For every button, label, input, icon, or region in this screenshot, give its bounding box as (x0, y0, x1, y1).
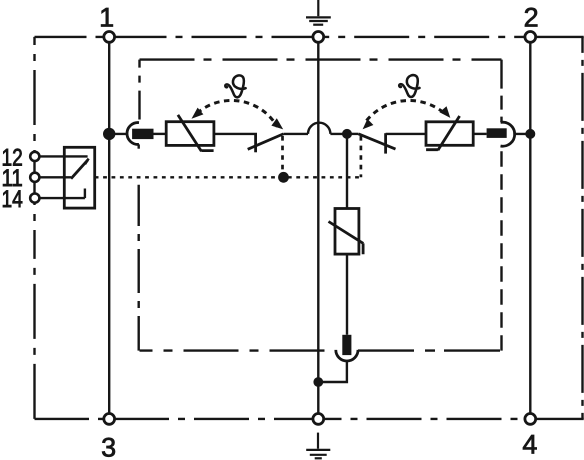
thermal trip arc F1 (dashed with arrows) (197, 100, 277, 126)
thermal trip arc F1 left arrowhead (192, 108, 204, 119)
inner module enclosure bottom edge (dash-dot, interrupted by socket) (140, 349, 336, 351)
wire: node N1 to thermal disconnect F2 (347, 133, 359, 135)
plug-in connector socket (right, on enclosure edge) (501, 122, 515, 146)
plug-in connector socket (bottom, on enclosure edge) (336, 350, 358, 361)
svg-text:2: 2 (524, 2, 539, 32)
plug-in connector plug (right, black contact pin) (487, 128, 507, 138)
varistor RV3 body (335, 209, 359, 255)
earth terminal circle (top) (313, 32, 324, 43)
outer frame right edge (dash-dot) (581, 37, 583, 419)
earth symbol (bottom) (306, 433, 330, 459)
wire: varistor RV3 down to bottom plug (346, 254, 348, 335)
crossover bump over centre bus (no connection) (308, 123, 330, 134)
terminal 4 circle (525, 414, 536, 425)
wire: terminal 11 lead (40, 176, 72, 178)
thermal disconnect F1 fixed bar (254, 133, 257, 152)
terminal 12 circle (30, 152, 39, 161)
varistor RV1 diagonal stroke (178, 115, 214, 151)
wire: bottom socket to node on centre bus (318, 361, 347, 382)
wire: node N1 down to centre varistor RV3 (346, 134, 348, 209)
node: junction dot at right bus (525, 129, 535, 139)
thermal trip arc F2 left arrowhead (363, 119, 374, 129)
wire: right bus from terminal 2 to terminal 4 (529, 42, 531, 413)
wire: varistor RV1 to thermal disconnect F1 (214, 133, 257, 135)
wire: left bus from terminal 1 to terminal 3 (108, 42, 110, 413)
wire: crossover to node N1 (330, 133, 347, 135)
outer frame left edge (dash-dot) (33, 37, 35, 230)
wire: terminal 12 lead (40, 155, 88, 157)
dotted signalling line to remote contact (95, 176, 361, 178)
plug-in connector socket (left, on enclosure edge) (127, 123, 139, 145)
wire: node at left bus to left socket (109, 133, 127, 135)
outer frame top edge (dash-dot) (35, 36, 319, 38)
earth terminal circle (bottom) (313, 414, 324, 425)
thermal disconnect F2 fixed bar (384, 133, 387, 153)
svg-text:14: 14 (2, 186, 23, 213)
wire: F2 to varistor RV2 (386, 133, 426, 135)
temperature symbol theta (right) (399, 75, 419, 97)
contact K1 fixed contact seat (terminal 12) (85, 159, 89, 165)
dashed link: F1 blade to signalling line (281, 136, 284, 173)
svg-text:3: 3 (101, 433, 116, 460)
thermal trip arc F1 right arrowhead (271, 118, 283, 129)
temperature symbol theta (left) (225, 75, 245, 97)
terminal 1 circle (104, 32, 115, 43)
thermal trip arc F2 right arrowhead (440, 106, 451, 118)
wire: F1 to crossover (283, 133, 308, 135)
wire: centre earth bus from top terminal to bottom terminal (317, 42, 319, 413)
terminal 2 circle (525, 32, 536, 43)
terminal 3 circle (104, 414, 115, 425)
varistor RV2 diagonal stroke (426, 116, 460, 150)
contact K1 blade (common 11, closed to 12) (71, 160, 88, 179)
thermal disconnect F1 blade (248, 134, 284, 149)
node: junction dot on signalling line (278, 172, 289, 183)
node: junction dot bottom centre (313, 377, 323, 387)
thermal disconnect F2 blade (359, 134, 396, 149)
plug-in connector plug (left, black contact pin) (132, 129, 153, 139)
wire: terminal 14 lead (40, 189, 85, 199)
varistor RV2 body (426, 122, 473, 146)
thermal trip arc F2 (dashed with arrows) (367, 100, 444, 120)
terminal 14 circle (30, 194, 39, 203)
terminal 11 circle (30, 173, 39, 182)
wire: varistor RV2 to right plug (473, 133, 486, 135)
plug-in connector plug (bottom, black contact pin) (342, 335, 351, 355)
outer frame bottom edge (dash-dot) (35, 418, 319, 420)
wire: plug to varistor RV1 (154, 133, 167, 135)
dashed link: F2 blade to signalling line (360, 136, 363, 177)
inner module enclosure top edge (dash-dot) (140, 58, 502, 60)
svg-text:1: 1 (99, 2, 114, 32)
inner module enclosure right edge (dashed, interrupted by socket) (500, 60, 502, 122)
node: junction dot at left bus / main line (103, 128, 115, 140)
varistor RV1 body (166, 122, 214, 146)
varistor RV3 diagonal stroke (329, 222, 364, 255)
svg-text:4: 4 (522, 430, 537, 460)
inner module enclosure left edge (dash-dot, interrupted by socket) (138, 60, 140, 120)
remote signalling contact K1 box (64, 147, 94, 208)
wire: right socket to node on right bus (513, 133, 530, 135)
earth symbol (top) (306, 0, 331, 25)
node N1: junction dot centre branch (342, 129, 352, 139)
